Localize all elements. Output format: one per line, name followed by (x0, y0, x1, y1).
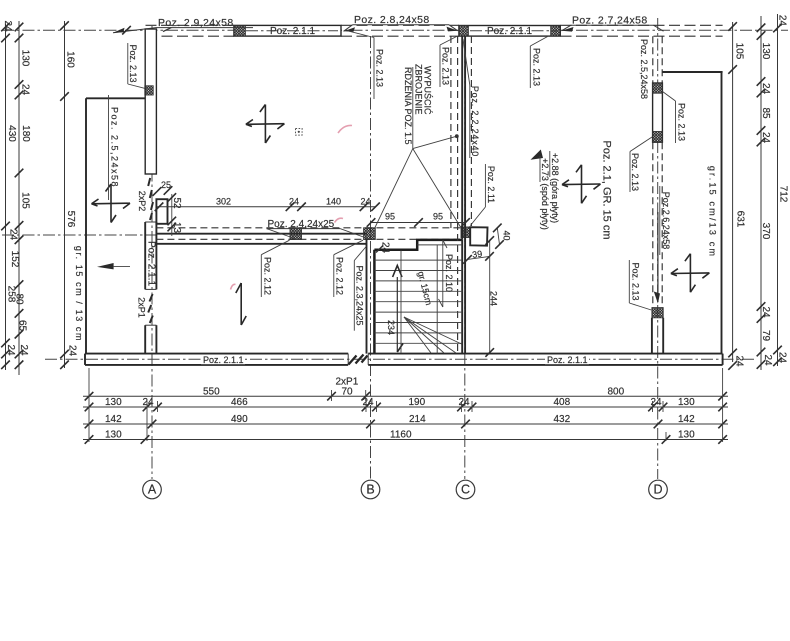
svg-text:24: 24 (2, 20, 13, 32)
svg-text:Poz. 2.13: Poz. 2.13 (532, 48, 542, 86)
svg-text:24: 24 (19, 84, 30, 96)
svg-text:Poz. 2.12: Poz. 2.12 (262, 257, 272, 295)
svg-text:24: 24 (8, 229, 19, 241)
svg-text:105: 105 (734, 43, 745, 60)
svg-text:B: B (366, 483, 374, 497)
svg-text:13: 13 (171, 222, 182, 234)
svg-text:2xP2: 2xP2 (137, 191, 147, 212)
svg-text:95: 95 (433, 212, 443, 222)
svg-text:140: 140 (326, 197, 341, 207)
svg-text:Poz. 2.1, GR. 15 cm: Poz. 2.1, GR. 15 cm (601, 140, 613, 239)
svg-text:Poz. 2.10: Poz. 2.10 (444, 254, 454, 292)
svg-text:Poz. 2.1.1: Poz. 2.1.1 (146, 241, 157, 286)
svg-text:24: 24 (289, 197, 299, 207)
svg-text:Poz. 2.1.1: Poz. 2.1.1 (203, 355, 244, 365)
svg-text:24: 24 (18, 344, 29, 356)
svg-text:24: 24 (361, 197, 371, 207)
svg-text:Poz. 2.2,24x40: Poz. 2.2,24x40 (470, 86, 480, 157)
svg-text:C: C (461, 483, 470, 497)
svg-text:Poz.2.6,24x58: Poz.2.6,24x58 (661, 192, 671, 250)
svg-text:631: 631 (735, 211, 746, 228)
svg-text:152: 152 (9, 251, 20, 268)
svg-text:490: 490 (231, 414, 248, 425)
svg-text:+2.73 (spód płyty): +2.73 (spód płyty) (540, 158, 550, 230)
svg-text:85: 85 (760, 107, 771, 119)
svg-text:39: 39 (472, 249, 483, 260)
svg-text:Poz. 2.11: Poz. 2.11 (486, 166, 496, 203)
svg-text:70: 70 (342, 387, 354, 398)
svg-text:576: 576 (65, 211, 76, 228)
svg-text:40: 40 (502, 230, 512, 240)
svg-text:1160: 1160 (390, 430, 412, 441)
svg-text:180: 180 (20, 125, 31, 142)
svg-text:ZBROJENIE: ZBROJENIE (413, 64, 423, 115)
svg-text:130: 130 (105, 430, 122, 441)
svg-text:24: 24 (143, 397, 155, 408)
svg-text:Poz. 2.1.1: Poz. 2.1.1 (547, 355, 588, 365)
svg-text:430: 430 (6, 125, 17, 142)
svg-text:Poz. 2.13: Poz. 2.13 (630, 153, 640, 191)
svg-text:52: 52 (171, 197, 182, 209)
svg-text:130: 130 (678, 430, 695, 441)
svg-text:160: 160 (64, 51, 75, 68)
svg-text:190: 190 (409, 397, 426, 408)
svg-text:105: 105 (19, 192, 30, 209)
svg-text:24: 24 (760, 83, 771, 95)
svg-text:Poz. 2.3,24x25: Poz. 2.3,24x25 (355, 265, 365, 325)
svg-text:Poz. 2.8,24x58: Poz. 2.8,24x58 (354, 14, 430, 26)
svg-text:130: 130 (105, 397, 122, 408)
svg-text:79: 79 (760, 330, 771, 342)
svg-text:Poz. 2.13: Poz. 2.13 (631, 262, 641, 300)
svg-text:95: 95 (385, 212, 395, 222)
svg-text:550: 550 (203, 387, 220, 398)
svg-text:24: 24 (760, 306, 771, 318)
svg-text:24: 24 (363, 397, 375, 408)
svg-text:302: 302 (216, 197, 231, 207)
svg-text:gr. 15 cm / 13 cm: gr. 15 cm / 13 cm (74, 246, 84, 342)
svg-text:65: 65 (17, 320, 28, 332)
svg-text:Poz. 2.12: Poz. 2.12 (334, 257, 344, 295)
svg-text:24: 24 (5, 344, 16, 356)
svg-text:gr.15 cm/13 cm: gr.15 cm/13 cm (708, 166, 718, 258)
svg-text:24: 24 (762, 354, 773, 366)
svg-text:Poz. 2.13: Poz. 2.13 (128, 44, 138, 82)
svg-text:Poz. 2.1.1: Poz. 2.1.1 (487, 26, 532, 37)
svg-text:Poz. 2.5,24x58: Poz. 2.5,24x58 (110, 107, 120, 188)
svg-text:Poz. 2.1.1: Poz. 2.1.1 (270, 26, 315, 37)
svg-text:142: 142 (678, 414, 695, 425)
svg-text:432: 432 (554, 414, 571, 425)
svg-text:234: 234 (386, 320, 396, 335)
svg-text:Poz. 2.5,24x58: Poz. 2.5,24x58 (639, 39, 649, 99)
svg-text:24: 24 (734, 355, 745, 367)
svg-text:130: 130 (678, 397, 695, 408)
svg-text:Poz. 2.13: Poz. 2.13 (441, 47, 451, 85)
svg-text:800: 800 (608, 387, 625, 398)
svg-text:D: D (653, 483, 662, 497)
svg-text:130: 130 (760, 43, 771, 60)
svg-text:130: 130 (19, 50, 30, 67)
svg-text:A: A (148, 483, 157, 497)
svg-text:Poz. 2.7,24x58: Poz. 2.7,24x58 (572, 14, 648, 26)
svg-text:RDZENIA POZ. 1.5: RDZENIA POZ. 1.5 (403, 67, 413, 145)
svg-text:2xP1: 2xP1 (137, 297, 147, 318)
svg-text:Poz. 2.13: Poz. 2.13 (375, 49, 385, 87)
svg-text:24: 24 (380, 242, 391, 254)
svg-text:24: 24 (777, 352, 788, 364)
svg-text:24: 24 (459, 397, 471, 408)
svg-text:244: 244 (488, 291, 498, 306)
svg-text:466: 466 (231, 397, 248, 408)
svg-text:214: 214 (409, 414, 426, 425)
svg-text:142: 142 (105, 414, 122, 425)
svg-text:24: 24 (67, 345, 78, 357)
svg-text:370: 370 (760, 223, 771, 240)
svg-text:24: 24 (760, 132, 771, 144)
svg-text:712: 712 (778, 186, 789, 203)
svg-text:80: 80 (14, 293, 25, 305)
svg-text:24: 24 (777, 15, 788, 27)
svg-text:Poz. 2.13: Poz. 2.13 (677, 103, 687, 141)
svg-text:408: 408 (554, 397, 571, 408)
svg-text:+2.88 (góra płyty): +2.88 (góra płyty) (550, 153, 560, 223)
